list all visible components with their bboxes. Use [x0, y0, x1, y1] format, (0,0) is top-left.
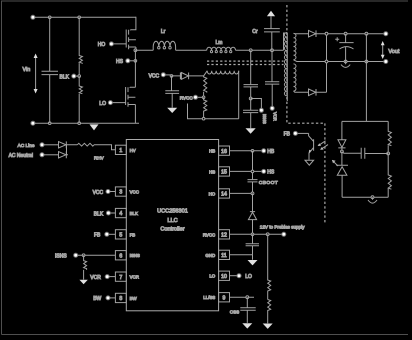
- svg-text:VCC: VCC: [130, 190, 139, 195]
- ground secondary at anode rail: [368, 197, 377, 203]
- node Vout+ terminal: [384, 32, 388, 36]
- svg-text:7: 7: [119, 275, 122, 281]
- wire lower diode cathode to top rail: [326, 34, 328, 93]
- wire bias winding return: [188, 104, 239, 120]
- wire Lm to transformer: [236, 49, 284, 51]
- junction at sense cap A: [249, 49, 252, 52]
- node RVCC terminal mid: [180, 95, 205, 100]
- svg-text:HO: HO: [98, 42, 106, 48]
- pin 12 RVCC box: [203, 230, 230, 239]
- svg-text:Lm: Lm: [216, 40, 223, 46]
- svg-text:CBOOT: CBOOT: [259, 180, 278, 186]
- junction return rail left: [325, 60, 328, 63]
- svg-text:Vout: Vout: [388, 49, 399, 55]
- node VCC terminal: [149, 73, 173, 80]
- wire primary top lead: [284, 33, 288, 50]
- svg-text:8: 8: [119, 296, 122, 302]
- wire bottom input rail: [35, 122, 139, 124]
- junction sense node: [249, 97, 252, 100]
- wire secondary bottom lead: [294, 91, 309, 92]
- svg-text:12: 12: [221, 233, 227, 239]
- diode rectifier D2: [59, 151, 67, 158]
- op-amp U1 UCC256301 LLC controller body: [126, 140, 218, 311]
- node BLK sense: [60, 74, 81, 80]
- resistor divider upper RBLK1: [79, 17, 82, 76]
- svg-text:GND: GND: [205, 253, 215, 258]
- svg-text:HB: HB: [209, 149, 215, 154]
- pin 6 ISNS box: [115, 251, 140, 260]
- capacitor sense B: [265, 50, 279, 106]
- wire Lr to Lm: [176, 49, 207, 51]
- junction FB divider mid: [387, 152, 390, 155]
- diode output rectifier upper: [309, 30, 326, 37]
- diode opto LED: [338, 121, 346, 151]
- svg-text:AC Neutral: AC Neutral: [9, 153, 33, 159]
- wire rectifier output join: [67, 145, 78, 155]
- node VCR pin terminal: [90, 275, 115, 281]
- ground at RVCC chain: [263, 324, 273, 329]
- svg-text:ISNS: ISNS: [55, 254, 67, 260]
- wire output return rail: [306, 61, 384, 63]
- node Vin+ terminal: [31, 15, 35, 19]
- resistor RVCC chain lower: [268, 300, 271, 324]
- wire isolation boundary dashed: [287, 5, 325, 224]
- svg-text:BLK: BLK: [130, 211, 138, 216]
- svg-text:LO: LO: [99, 101, 106, 107]
- svg-text:16: 16: [221, 149, 227, 155]
- ground at RISNS: [79, 280, 87, 285]
- capacitor CBOOT: [248, 151, 279, 194]
- wire LLSS pin row: [230, 296, 255, 299]
- svg-text:HS: HS: [267, 170, 275, 176]
- ground at opto emitter: [305, 160, 314, 165]
- svg-text:VCR: VCR: [90, 275, 101, 281]
- capacitor output electrolytic: [335, 34, 353, 62]
- svg-text:LLC: LLC: [167, 218, 177, 224]
- pin 11 GND box: [205, 250, 229, 259]
- pin 14 HO box: [209, 189, 230, 198]
- junction return rail at FB tap: [365, 60, 368, 63]
- transistor Q2 low-side MOSFET: [128, 87, 135, 123]
- wire switch node to resonant tank: [135, 49, 153, 51]
- Vin arrow annotation: [23, 54, 38, 94]
- inductor bias winding BW: [204, 71, 239, 119]
- svg-text:VCR: VCR: [273, 112, 278, 121]
- capacitor CVCC: [165, 76, 179, 108]
- transformer T1 primary winding: [284, 33, 287, 102]
- pin 4 BLK box: [115, 208, 138, 217]
- svg-text:HO: HO: [209, 191, 216, 196]
- opto emission arrows: [318, 141, 328, 150]
- transformer T1 secondary lower winding: [294, 64, 297, 91]
- svg-text:FB: FB: [284, 132, 291, 138]
- svg-text:VCR: VCR: [130, 275, 139, 280]
- junction LED anode: [341, 150, 344, 153]
- svg-text:Lr: Lr: [161, 29, 166, 35]
- junction at Cr bottom: [271, 49, 274, 52]
- wire feedback node horizontal: [342, 120, 388, 122]
- node FB pin terminal: [94, 232, 115, 238]
- diode bootstrap DBOOT: [248, 193, 256, 234]
- svg-text:FB: FB: [94, 233, 101, 239]
- pin 16 HB box: [209, 146, 229, 155]
- capacitor sense C to ground: [243, 99, 258, 129]
- svg-text:AC Line: AC Line: [18, 143, 35, 149]
- junction anode rail ground: [371, 196, 374, 199]
- node AC Neutral terminal: [9, 153, 59, 159]
- svg-text:HB: HB: [267, 149, 275, 155]
- wire RVCC pin row: [230, 224, 306, 236]
- svg-text:1: 1: [119, 148, 122, 154]
- capacitor bulk CBLK: [42, 17, 59, 123]
- svg-text:RHV: RHV: [94, 155, 105, 160]
- junction bottom rail at divider: [78, 122, 81, 125]
- diode rectifier D1: [59, 141, 67, 148]
- node VCC pin terminal: [93, 190, 116, 196]
- node LO gate terminal: [99, 87, 125, 107]
- ground at CVCC: [167, 108, 177, 113]
- svg-text:BW: BW: [130, 296, 138, 301]
- resistor FB divider lower: [388, 154, 391, 198]
- junction top rail left: [325, 32, 328, 35]
- svg-text:9: 9: [223, 295, 226, 301]
- svg-text:BLK: BLK: [60, 74, 70, 80]
- pin 3 VCC box: [115, 187, 138, 196]
- node FB test point secondary: [284, 131, 309, 137]
- capacitor compensation: [342, 148, 388, 159]
- transformer T1 secondary upper winding: [294, 33, 297, 59]
- junction on top rail at divider: [78, 16, 81, 19]
- svg-text:RVCC: RVCC: [203, 232, 215, 237]
- svg-text:RVCC: RVCC: [180, 96, 194, 101]
- pin 8 BW box: [115, 293, 137, 302]
- node LO pin terminal: [230, 274, 252, 280]
- node Vout- terminal: [384, 60, 388, 64]
- svg-text:VCC: VCC: [149, 73, 160, 79]
- svg-text:5: 5: [119, 233, 122, 239]
- ground at GND pin: [248, 260, 258, 265]
- svg-text:6: 6: [119, 253, 122, 259]
- svg-text:FB: FB: [130, 232, 136, 237]
- node ISNS test point: [251, 99, 267, 124]
- wire RHV to pin 1: [94, 145, 115, 150]
- node BW pin terminal: [93, 296, 115, 302]
- wire FB tap vertical: [365, 34, 367, 122]
- junction return rail at cap: [344, 60, 347, 63]
- wire center tap to return rail: [294, 60, 307, 62]
- pin 15 HS box: [209, 167, 229, 176]
- svg-text:HS: HS: [116, 59, 124, 65]
- pin 7 VCR box: [115, 272, 138, 281]
- node HS pin terminal: [230, 169, 275, 175]
- node HB pin terminal: [230, 149, 275, 155]
- node arrow to bulk rail above Cr: [267, 11, 275, 29]
- resistor bias chain upper: [204, 76, 207, 97]
- transformer core dashed lines: [207, 61, 284, 64]
- wire top input rail: [35, 16, 136, 18]
- node switch node junction: [134, 49, 137, 52]
- node AC Line terminal: [18, 143, 59, 149]
- diode DVCC bias rectifier: [172, 73, 204, 80]
- Vout arrow annotation: [381, 41, 400, 59]
- svg-text:LO: LO: [209, 274, 215, 279]
- pin 5 FB box: [115, 230, 135, 239]
- capacitor sense A: [244, 50, 259, 98]
- capacitor Cr resonant: [252, 29, 279, 51]
- resistor RHV: [77, 143, 104, 160]
- svg-text:4: 4: [119, 211, 122, 217]
- inductor Lm magnetizing: [207, 40, 236, 53]
- node BLK pin terminal: [94, 211, 116, 217]
- transistor Q1 high-side MOSFET: [129, 17, 136, 51]
- resistor RVCC chain upper: [268, 234, 271, 299]
- svg-text:CSS: CSS: [230, 309, 239, 314]
- pin 10 LO box: [209, 271, 229, 280]
- diode output rectifier lower: [309, 89, 327, 96]
- capacitor CSS: [230, 297, 256, 323]
- junction top rail at FB tap: [365, 32, 368, 35]
- svg-text:HV: HV: [130, 148, 136, 153]
- wire output top rail: [325, 33, 384, 35]
- pin 1 HV box: [115, 145, 135, 154]
- ground secondary at return rail: [341, 62, 350, 68]
- resistor bias chain lower: [204, 97, 207, 118]
- resistor FB divider upper: [388, 121, 391, 153]
- wire GND pin row: [230, 255, 253, 260]
- shunt regulator TL431 U2: [332, 152, 348, 198]
- inductor Lr: [153, 29, 175, 50]
- svg-text:UCC256301: UCC256301: [157, 208, 188, 214]
- svg-text:HS: HS: [209, 169, 215, 174]
- svg-text:12V to Prebias supply: 12V to Prebias supply: [260, 224, 305, 229]
- wire HO pin to bootstrap: [230, 192, 254, 195]
- svg-text:LO: LO: [245, 274, 252, 280]
- svg-text:LL/SS: LL/SS: [203, 295, 215, 300]
- wire switch node vertical: [134, 50, 136, 87]
- svg-text:BW: BW: [93, 296, 101, 302]
- svg-text:10: 10: [221, 274, 227, 280]
- node ISNS pin terminal: [55, 253, 115, 259]
- svg-text:15: 15: [221, 170, 227, 176]
- resistor divider lower RBLK2: [79, 76, 82, 123]
- node Vin- terminal: [31, 121, 35, 125]
- svg-text:ISNS: ISNS: [262, 114, 267, 124]
- svg-text:Vin: Vin: [23, 67, 31, 73]
- junction top rail at cap: [344, 32, 347, 35]
- node HS terminal: [116, 59, 137, 65]
- capacitor CRVCC: [246, 234, 259, 255]
- junction on top rail at bulk cap: [48, 16, 51, 19]
- ground primary at bottom rail: [90, 124, 99, 130]
- svg-text:ISNS: ISNS: [130, 253, 140, 258]
- junction bottom rail at bulk cap: [48, 122, 51, 125]
- ground at sense network: [246, 128, 256, 134]
- pin 9 LLSS box: [203, 293, 229, 302]
- ground at CSS: [242, 323, 252, 328]
- svg-text:11: 11: [221, 253, 226, 259]
- resistor RISNS to ground: [84, 255, 87, 279]
- node VCR test point: [270, 106, 277, 121]
- wire TL431 anode rail: [342, 196, 388, 198]
- wire secondary top lead: [294, 32, 309, 34]
- svg-text:BLK: BLK: [94, 211, 104, 217]
- svg-text:VCC: VCC: [93, 190, 104, 196]
- node HO gate terminal: [98, 30, 126, 49]
- svg-text:14: 14: [221, 192, 227, 198]
- transistor opto phototransistor: [309, 133, 314, 159]
- svg-text:Controller: Controller: [160, 227, 184, 233]
- svg-text:Cr: Cr: [252, 29, 258, 35]
- svg-text:3: 3: [119, 190, 122, 196]
